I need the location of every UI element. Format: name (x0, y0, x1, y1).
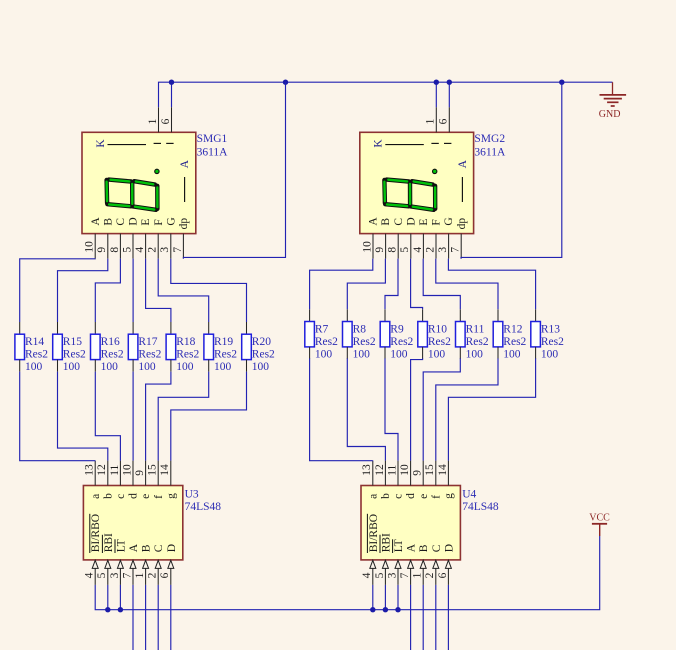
pin 13 (a) of U4 (372, 461, 374, 486)
resistor R19 Res2 100 (204, 322, 237, 373)
pin 7 (A) of U4 (410, 568, 412, 585)
svg-text:R15: R15 (63, 336, 82, 348)
junction bus U4 pin4 (370, 607, 375, 612)
pin 14 (g) of U3 (170, 461, 172, 486)
pin 7 (dp) of SMG2 (460, 234, 462, 259)
pin 8 (C) of SMG2 (397, 234, 399, 259)
svg-text:R13: R13 (541, 324, 560, 336)
svg-text:2: 2 (424, 572, 436, 578)
pin 2 (F) of SMG1 (157, 234, 159, 259)
pin 14 (g) of U4 (447, 461, 449, 486)
wire R20 to U3 pin g (171, 372, 247, 461)
svg-text:B: B (380, 218, 392, 226)
pin 2 (F) of SMG2 (435, 234, 437, 259)
svg-text:R11: R11 (466, 324, 485, 336)
svg-text:Res2: Res2 (466, 336, 489, 348)
wire U3 BCD input B off bottom (145, 585, 147, 650)
svg-text:Res2: Res2 (25, 349, 48, 361)
svg-text:Res2: Res2 (63, 349, 86, 361)
pin 6 (D) of U3 (170, 568, 172, 585)
svg-text:8: 8 (387, 247, 399, 253)
svg-text:7: 7 (121, 572, 133, 578)
svg-text:e: e (418, 494, 430, 499)
wire U4 pin5 to bus (384, 585, 386, 610)
svg-text:100: 100 (503, 349, 521, 361)
pin 1 of SMG1 (158, 107, 160, 132)
wire SMG1 pinF to R19 (158, 259, 209, 322)
svg-text:D: D (128, 217, 140, 225)
pin 15 (f) of U4 (435, 461, 437, 486)
resistor R8 Res2 100 (343, 309, 376, 360)
BCD decoder IC U3 74LS48 (83, 461, 182, 585)
svg-text:100: 100 (138, 361, 156, 373)
svg-text:9: 9 (96, 247, 108, 253)
svg-text:K: K (373, 139, 385, 148)
svg-text:A: A (457, 159, 469, 168)
svg-text:5: 5 (374, 572, 386, 578)
svg-text:BI/RBO: BI/RBO (368, 514, 380, 552)
svg-text:100: 100 (315, 349, 333, 361)
svg-text:R16: R16 (101, 336, 120, 348)
resistor R16 Res2 100 (91, 322, 124, 373)
pin 1 of SMG2 (435, 107, 437, 132)
svg-text:A: A (90, 217, 102, 226)
svg-text:G: G (443, 217, 455, 225)
svg-text:R10: R10 (428, 324, 447, 336)
svg-text:R8: R8 (353, 324, 367, 336)
pin 11 (c) of U3 (119, 461, 121, 486)
svg-text:R19: R19 (214, 336, 233, 348)
svg-text:D: D (443, 544, 455, 552)
pin 5 (D) of SMG1 (132, 234, 134, 259)
svg-text:U4: U4 (462, 488, 476, 500)
wire SMG2 pinD to R10 (411, 259, 423, 310)
wire SMG1 pinB to R15 (58, 259, 108, 322)
wire R13 to U4 pin g (448, 358, 535, 460)
svg-text:F: F (153, 219, 165, 225)
svg-text:F: F (431, 219, 443, 225)
svg-text:R14: R14 (25, 336, 44, 348)
svg-text:100: 100 (541, 349, 559, 361)
svg-text:A: A (406, 543, 418, 552)
svg-text:12: 12 (374, 464, 386, 476)
svg-text:RBI: RBI (380, 533, 392, 552)
svg-text:Res2: Res2 (428, 336, 451, 348)
svg-text:VCC: VCC (589, 512, 610, 523)
svg-text:10: 10 (121, 464, 133, 476)
wire R12 to U4 pin f (436, 358, 498, 460)
svg-text:Res2: Res2 (252, 349, 275, 361)
svg-text:D: D (166, 544, 178, 552)
svg-text:9: 9 (374, 247, 386, 253)
svg-text:d: d (405, 493, 417, 499)
pin 6 of SMG2 (448, 107, 450, 132)
junction bus U3 pin3 (118, 607, 123, 612)
resistor R18 Res2 100 (166, 322, 199, 373)
pin 2 (C) of U3 (157, 568, 159, 585)
decimal point dot of SMG2 (433, 169, 437, 173)
wire SMG1 pinE to R18 (146, 259, 171, 322)
wire SMG2 pinA to R7 (310, 259, 373, 310)
svg-text:11: 11 (109, 464, 121, 475)
svg-text:e: e (140, 494, 152, 499)
svg-text:Res2: Res2 (541, 336, 564, 348)
svg-text:Res2: Res2 (503, 336, 526, 348)
svg-text:1: 1 (147, 118, 159, 124)
svg-text:100: 100 (63, 361, 81, 373)
svg-text:SMG1: SMG1 (197, 133, 228, 145)
svg-text:7: 7 (399, 572, 411, 578)
wire U4 BCD input A off bottom (410, 585, 412, 650)
wire R14 to U3 pin a (20, 372, 96, 461)
wire SMG1 pinC to R16 (95, 259, 120, 322)
svg-text:100: 100 (353, 349, 371, 361)
wire U4 pin3 to bus (397, 585, 399, 610)
wire SMG2 dp loop to rail (461, 82, 562, 258)
resistor R17 Res2 100 (128, 322, 161, 373)
svg-text:3: 3 (386, 572, 398, 578)
pin 10 (A) of SMG1 (94, 234, 96, 259)
pin 10 (A) of SMG2 (372, 234, 374, 259)
wire R16 to U3 pin c (95, 372, 120, 461)
svg-text:10: 10 (84, 241, 96, 253)
wire SMG2 pin1 to rail (435, 82, 437, 107)
svg-text:B: B (141, 544, 153, 552)
pin 4 (E) of SMG1 (145, 234, 147, 259)
svg-text:5: 5 (399, 247, 411, 253)
svg-text:LT: LT (115, 539, 127, 552)
svg-text:Res2: Res2 (214, 349, 237, 361)
resistor R11 Res2 100 (456, 309, 489, 360)
pin 10 (d) of U3 (132, 461, 134, 486)
svg-text:GND: GND (599, 109, 621, 120)
wire SMG2 pinF to R12 (436, 259, 498, 310)
wire U3 pin3 to bus (119, 585, 121, 610)
svg-text:100: 100 (214, 361, 232, 373)
wire U3 BCD input D off bottom (170, 585, 172, 650)
pin 9 (B) of SMG2 (385, 234, 387, 259)
resistor R20 Res2 100 (242, 322, 275, 373)
svg-text:c: c (115, 494, 127, 499)
wire U4 BCD input D off bottom (447, 585, 449, 650)
junction on rail at SMG2 pin6 (447, 80, 452, 85)
junction bus U4 pin5 (383, 607, 388, 612)
svg-text:74LS48: 74LS48 (462, 501, 499, 513)
pin 13 (a) of U3 (94, 461, 96, 486)
wire SMG1 pinG to R20 (171, 259, 247, 322)
wire GND rail from SMG1 pin1 across to ground (159, 82, 613, 107)
pin 6 of SMG1 (171, 107, 173, 132)
svg-text:RBI: RBI (103, 533, 115, 552)
svg-text:a: a (367, 494, 379, 499)
svg-text:U3: U3 (185, 488, 199, 500)
junction on rail at SMG1 pin6 (169, 80, 174, 85)
junction on rail at SMG2 dp riser (559, 80, 564, 85)
svg-text:6: 6 (160, 118, 172, 124)
pin 15 (f) of U3 (157, 461, 159, 486)
pin 4 (BI/RBO) of U4 (372, 568, 374, 585)
wire R7 to U4 pin a (310, 358, 373, 460)
svg-text:100: 100 (176, 361, 194, 373)
svg-text:R20: R20 (252, 336, 271, 348)
pin 12 (b) of U3 (107, 461, 109, 486)
junction bus U4 pin3 (395, 607, 400, 612)
wire R19 to U3 pin f (158, 372, 209, 461)
pin 7 (dp) of SMG1 (182, 234, 184, 259)
svg-text:b: b (102, 493, 114, 499)
junction on rail at SMG1 dp riser (283, 80, 288, 85)
wire R11 to U4 pin e (423, 358, 460, 460)
svg-text:R17: R17 (138, 336, 157, 348)
resistor R15 Res2 100 (53, 322, 86, 373)
svg-text:6: 6 (437, 572, 449, 578)
svg-text:5: 5 (121, 247, 133, 253)
svg-text:E: E (418, 219, 430, 226)
junction bus U3 pin5 (105, 607, 110, 612)
pin 6 (D) of U4 (447, 568, 449, 585)
wire SMG2 pin6 to rail (448, 82, 450, 107)
svg-text:7: 7 (450, 247, 462, 253)
svg-text:13: 13 (84, 464, 96, 476)
svg-text:A: A (128, 543, 140, 552)
pin 4 (E) of SMG2 (422, 234, 424, 259)
svg-text:100: 100 (25, 361, 43, 373)
7-segment display SMG2 3611A (360, 107, 474, 258)
svg-text:3: 3 (109, 572, 121, 578)
7-segment display SMG1 3611A (82, 107, 196, 258)
svg-text:6: 6 (159, 572, 171, 578)
svg-text:100: 100 (390, 349, 408, 361)
svg-text:3: 3 (437, 247, 449, 253)
svg-text:Res2: Res2 (138, 349, 161, 361)
pin 11 (c) of U4 (397, 461, 399, 486)
svg-text:3: 3 (159, 247, 171, 253)
svg-text:15: 15 (147, 464, 159, 476)
svg-text:D: D (405, 217, 417, 225)
pin 7 (A) of U3 (132, 568, 134, 585)
resistor R7 Res2 100 (305, 309, 338, 360)
wire U4 BCD input B off bottom (422, 585, 424, 650)
pin 9 (B) of SMG1 (107, 234, 109, 259)
svg-text:10: 10 (399, 464, 411, 476)
pin 3 (G) of SMG1 (170, 234, 172, 259)
svg-text:Res2: Res2 (353, 336, 376, 348)
svg-text:100: 100 (101, 361, 119, 373)
svg-text:1: 1 (134, 572, 146, 578)
svg-text:K: K (95, 139, 107, 148)
svg-text:1: 1 (425, 118, 437, 124)
wire SMG2 pinE to R11 (423, 259, 460, 310)
wire SMG1 dp loop to rail (183, 82, 285, 258)
svg-text:12: 12 (96, 464, 108, 476)
pin 5 (D) of SMG2 (410, 234, 412, 259)
pin 1 (B) of U4 (422, 568, 424, 585)
svg-text:6: 6 (438, 118, 450, 124)
svg-text:4: 4 (361, 572, 373, 578)
svg-text:B: B (102, 218, 114, 226)
junction on rail at SMG2 pin1 (434, 80, 439, 85)
svg-text:A: A (368, 217, 380, 226)
svg-text:1: 1 (412, 572, 424, 578)
resistor R13 Res2 100 (531, 309, 564, 360)
svg-text:9: 9 (412, 470, 424, 476)
wire U4 pin4 to bus (372, 585, 374, 610)
wire R9 to U4 pin c (385, 358, 398, 460)
resistor R14 Res2 100 (15, 322, 48, 373)
wire R10 to U4 pin d (411, 358, 423, 460)
svg-text:14: 14 (159, 464, 171, 476)
wire U3 pin5 to bus (107, 585, 109, 610)
svg-text:4: 4 (412, 247, 424, 253)
wire VCC bus from U3 pin4 to VCC riser (95, 536, 600, 610)
svg-text:Res2: Res2 (390, 336, 413, 348)
svg-text:Res2: Res2 (315, 336, 338, 348)
svg-text:100: 100 (252, 361, 269, 373)
svg-text:SMG2: SMG2 (474, 133, 505, 145)
svg-text:LT: LT (393, 539, 405, 552)
pin 3 (LT) of U3 (119, 568, 121, 585)
svg-text:b: b (380, 493, 392, 499)
wire SMG2 pinG to R13 (448, 259, 535, 310)
svg-text:R12: R12 (503, 324, 522, 336)
pin 4 (BI/RBO) of U3 (94, 568, 96, 585)
BCD decoder IC U4 74LS48 (361, 461, 460, 585)
svg-text:Res2: Res2 (101, 349, 124, 361)
pin 9 (e) of U3 (145, 461, 147, 486)
svg-text:13: 13 (361, 464, 373, 476)
svg-text:c: c (393, 494, 405, 499)
ground GND symbol (599, 82, 626, 120)
pin 10 (d) of U4 (410, 461, 412, 486)
svg-text:7: 7 (172, 247, 184, 253)
decimal point dot of SMG1 (155, 169, 159, 173)
svg-text:10: 10 (361, 241, 373, 253)
wire SMG1 pin6 to rail (171, 82, 173, 107)
pin 3 (G) of SMG2 (448, 234, 450, 259)
svg-text:g: g (443, 493, 455, 499)
svg-text:f: f (153, 495, 165, 499)
svg-text:a: a (90, 494, 102, 499)
pin 12 (b) of U4 (384, 461, 386, 486)
svg-text:G: G (165, 217, 177, 225)
svg-text:C: C (393, 218, 405, 226)
svg-text:14: 14 (437, 464, 449, 476)
svg-text:11: 11 (386, 464, 398, 475)
pin 5 (RBI) of U4 (384, 568, 386, 585)
wire R15 to U3 pin b (58, 372, 108, 461)
resistor R10 Res2 100 (418, 309, 451, 360)
svg-text:9: 9 (134, 470, 146, 476)
wire SMG1 pinA to R14 (20, 259, 96, 322)
svg-text:R7: R7 (315, 324, 329, 336)
wire R18 to U3 pin e (146, 372, 171, 461)
svg-text:R18: R18 (176, 336, 195, 348)
svg-text:C: C (115, 218, 127, 226)
wire U4 BCD input C off bottom (435, 585, 437, 650)
svg-text:2: 2 (147, 247, 159, 253)
pin 9 (e) of U4 (422, 461, 424, 486)
svg-text:dp: dp (178, 218, 190, 230)
wire SMG2 pinB to R8 (347, 259, 385, 310)
svg-text:g: g (165, 493, 177, 499)
svg-text:5: 5 (96, 572, 108, 578)
svg-text:2: 2 (147, 572, 159, 578)
svg-text:4: 4 (84, 572, 96, 578)
pin 1 (B) of U3 (145, 568, 147, 585)
svg-text:dp: dp (456, 218, 468, 230)
wire U3 BCD input C off bottom (157, 585, 159, 650)
resistor R9 Res2 100 (380, 309, 413, 360)
7-segment digit graphic of SMG2 (384, 180, 435, 210)
svg-text:8: 8 (109, 247, 121, 253)
wire SMG1 pinD to R17 (132, 259, 134, 322)
pin 8 (C) of SMG1 (119, 234, 121, 259)
svg-text:BI/RBO: BI/RBO (90, 514, 102, 552)
wire SMG2 pinC to R9 (385, 259, 398, 310)
svg-text:4: 4 (134, 247, 146, 253)
svg-text:f: f (430, 495, 442, 499)
svg-text:3611A: 3611A (197, 146, 229, 158)
svg-text:R9: R9 (390, 324, 404, 336)
pin 3 (LT) of U4 (397, 568, 399, 585)
svg-text:74LS48: 74LS48 (185, 501, 222, 513)
7-segment digit graphic of SMG1 (107, 180, 158, 210)
svg-text:B: B (418, 544, 430, 552)
svg-text:d: d (128, 493, 140, 499)
wire U3 BCD input A off bottom (132, 585, 134, 650)
resistor R12 Res2 100 (493, 309, 526, 360)
wire R17 to U3 pin d (132, 372, 134, 461)
svg-text:2: 2 (424, 247, 436, 253)
svg-text:A: A (179, 159, 191, 168)
wire R8 to U4 pin b (347, 358, 385, 460)
svg-text:3611A: 3611A (474, 146, 506, 158)
svg-text:100: 100 (466, 349, 484, 361)
power VCC symbol (589, 512, 610, 536)
svg-text:15: 15 (424, 464, 436, 476)
svg-text:Res2: Res2 (176, 349, 199, 361)
svg-text:C: C (153, 544, 165, 552)
svg-text:E: E (140, 219, 152, 226)
pin 5 (RBI) of U3 (107, 568, 109, 585)
svg-text:C: C (431, 544, 443, 552)
pin 2 (C) of U4 (435, 568, 437, 585)
svg-text:100: 100 (428, 349, 446, 361)
